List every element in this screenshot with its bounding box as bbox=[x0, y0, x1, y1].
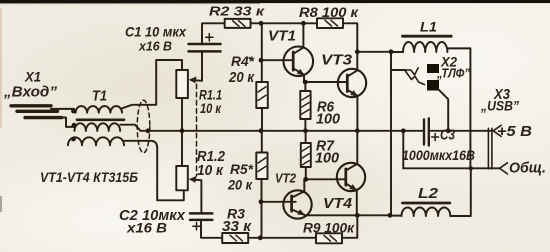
node R4/R5 mid bbox=[259, 128, 264, 133]
svg-text:х16 В: х16 В bbox=[138, 39, 172, 54]
wire +5V rail C3 to USB bbox=[430, 130, 493, 132]
transformer T1 winding 3 bbox=[68, 137, 124, 145]
X2 jack contact zigzag bbox=[406, 68, 418, 75]
X3 +5V pin arrow bbox=[493, 125, 501, 136]
wire R4 bottom to mid rail bbox=[261, 108, 263, 131]
wire bottom rail R9 up to emitter rail bbox=[342, 215, 357, 238]
svg-text:X1: X1 bbox=[24, 70, 41, 85]
wire L2 left lead bbox=[390, 215, 402, 217]
wire VT1 base bbox=[261, 59, 293, 61]
VT1 emitter arrow bbox=[297, 69, 305, 76]
wire VT2 collector up to junction bbox=[303, 179, 305, 191]
capacitor C3 bbox=[424, 119, 439, 146]
node emitter rail R9 bbox=[355, 213, 360, 218]
svg-text:+5 В: +5 В bbox=[497, 123, 532, 140]
svg-text:C1 10 мкх: C1 10 мкх bbox=[125, 24, 187, 40]
svg-text:R5*: R5* bbox=[230, 161, 254, 177]
node screen tap bbox=[146, 128, 151, 133]
node common right vertical bbox=[469, 166, 473, 170]
wire R1.1 bottom to R1.2 top bbox=[181, 98, 183, 167]
wire L1 right to right vertical bbox=[447, 48, 470, 168]
C3 minus loop bbox=[402, 131, 404, 168]
node VT3 collector tee bbox=[355, 49, 360, 54]
potentiometer R1.2 bbox=[176, 166, 188, 190]
wire mid rail to R5 bbox=[261, 131, 263, 153]
svg-text:10 к: 10 к bbox=[200, 100, 222, 116]
svg-text:33 к: 33 к bbox=[222, 219, 252, 235]
svg-text:VT2: VT2 bbox=[275, 172, 296, 186]
svg-text:100: 100 bbox=[316, 112, 340, 128]
svg-text:L1: L1 bbox=[420, 19, 437, 35]
svg-text:VT1: VT1 bbox=[268, 28, 296, 45]
wire VT3 emitter to VT4 collector bbox=[346, 131, 357, 170]
svg-text:R2 33 к: R2 33 к bbox=[209, 4, 266, 19]
node VT1 base bbox=[259, 58, 264, 63]
svg-text:Общ.: Общ. bbox=[509, 160, 546, 177]
left edge artifacts bbox=[0, 8, 2, 128]
wire bottom rail R3 to R9 bbox=[248, 237, 316, 239]
wire input top to T1 primary bbox=[51, 108, 74, 110]
resistor R9 bbox=[316, 233, 342, 243]
wire top rail R2 to R8 bbox=[251, 22, 318, 24]
node C3 plus / jack bbox=[446, 128, 451, 133]
svg-text:„Вход”: „Вход” bbox=[3, 85, 58, 101]
node VT3 emitter mid bbox=[355, 128, 360, 133]
shield screen dashed ellipse bbox=[137, 100, 150, 153]
wire C1 bottom to R1.1 wiper bbox=[192, 51, 203, 80]
svg-text:„ТЛФ”: „ТЛФ” bbox=[436, 66, 470, 81]
svg-text:„USB”: „USB” bbox=[480, 99, 519, 114]
ink speck bbox=[249, 57, 252, 60]
X3 common pin arrow bbox=[500, 163, 508, 174]
emitter rail VT2 to L2 bbox=[305, 214, 390, 216]
wire node to L1 and down to X2 and L2 bbox=[390, 52, 392, 216]
node VT2 base bbox=[259, 199, 264, 204]
resistor R4 bbox=[256, 82, 268, 108]
node R7/VT4 base bbox=[303, 177, 308, 182]
transistor VT3 bbox=[338, 69, 366, 131]
resistor R6 bbox=[300, 91, 310, 119]
wire C1 top to top rail corner bbox=[202, 23, 225, 44]
node C3 minus bbox=[401, 128, 406, 133]
connector X1 input lead 1 bbox=[11, 104, 51, 107]
node R2/R8 junction bbox=[259, 21, 264, 26]
wire VT3 collector junction to L1/X2 node bbox=[357, 51, 391, 53]
wire VT1 emitter to VT3 base and R6 bbox=[305, 81, 347, 83]
transistor VT2 bbox=[283, 190, 311, 218]
wire C2 bottom to bottom rail bbox=[201, 220, 222, 238]
top torn black edge bbox=[0, 0, 550, 3]
transistor VT1 bbox=[284, 23, 314, 82]
node bottom rail bbox=[258, 235, 263, 240]
wire input bottom jog to T1 winding 2 bbox=[61, 118, 75, 127]
svg-text:Т1: Т1 bbox=[92, 89, 107, 105]
svg-text:1000мкх16В: 1000мкх16В bbox=[402, 148, 475, 163]
X2 jack plug body bbox=[427, 64, 439, 91]
capacitor C2 bbox=[190, 213, 212, 230]
svg-text:VT4: VT4 bbox=[323, 195, 353, 212]
node pot chain mid bbox=[180, 128, 185, 133]
node R6/R7 mid bbox=[303, 128, 308, 133]
svg-text:х16 В: х16 В bbox=[126, 220, 167, 236]
resistor R7 bbox=[301, 143, 311, 167]
gang dashed line R1.1-R1.2 bbox=[196, 84, 198, 176]
node T1 dot2 bbox=[72, 123, 77, 128]
transformer T1 winding 1 bbox=[76, 106, 123, 113]
transformer T1 core bbox=[77, 118, 124, 121]
resistor R3 bbox=[222, 233, 248, 243]
node T1 dot3 bbox=[71, 137, 76, 142]
svg-text:R8 100 к: R8 100 к bbox=[299, 5, 359, 20]
transistor VT4 bbox=[337, 163, 365, 216]
svg-text:L2: L2 bbox=[418, 186, 438, 202]
wire R6 bottom to mid rail bbox=[304, 119, 306, 131]
VT2 emitter arrow bbox=[297, 209, 305, 215]
wire R5 bottom to VT2 base to bottom rail bbox=[261, 179, 263, 238]
wire VT2 base bbox=[261, 201, 296, 203]
wire R7 junction to VT4 base bbox=[306, 178, 346, 180]
VT4 emitter arrow bbox=[349, 184, 357, 191]
resistor R5 bbox=[256, 153, 267, 180]
wire R7 top to mid rail bbox=[305, 131, 307, 143]
R1.2 wiper arrow bbox=[189, 176, 197, 183]
wire X2 branch bbox=[391, 69, 406, 71]
svg-text:R4*: R4* bbox=[231, 53, 255, 69]
svg-text:С3: С3 bbox=[440, 128, 455, 144]
wire X2 plug to +5V rail bbox=[439, 90, 448, 131]
connector X3 USB bracket bbox=[488, 128, 492, 169]
inductor L2 bbox=[402, 203, 451, 216]
wire T1 winding1 right to R1.1 top bbox=[122, 60, 182, 108]
potentiometer R1.1 bbox=[176, 70, 188, 98]
wire top rail R8 to VT3 collector bbox=[343, 23, 357, 70]
transformer T1 winding 2 bbox=[75, 123, 121, 131]
node VT1 collector rail bbox=[301, 21, 306, 26]
svg-text:10 к: 10 к bbox=[197, 163, 224, 179]
wire L2 right up to common bbox=[450, 168, 471, 216]
svg-text:20 к: 20 к bbox=[228, 70, 254, 86]
node T1 dot1 bbox=[71, 109, 76, 114]
node VT1 emitter junction bbox=[303, 80, 308, 85]
R1.1 wiper arrow bbox=[189, 77, 197, 84]
mid common rail bbox=[120, 125, 423, 131]
svg-text:VT3: VT3 bbox=[321, 52, 353, 69]
resistor R8 bbox=[317, 18, 343, 28]
resistor R2 bbox=[225, 19, 251, 28]
node L2 left bbox=[388, 213, 393, 218]
connector X1 input lead 2 bbox=[17, 110, 58, 113]
capacitor C1 bbox=[189, 34, 221, 52]
bias chain vertical R2/R8 junction to VT1 base to R4 bbox=[261, 23, 263, 82]
node L1/X2 tee bbox=[389, 49, 394, 54]
svg-text:VT1-VT4 КТ315Б: VT1-VT4 КТ315Б bbox=[40, 169, 138, 185]
common rail to USB bbox=[403, 167, 499, 169]
wire R7 bottom to VT4 base junction bbox=[305, 167, 307, 179]
VT3 emitter arrow bbox=[350, 90, 358, 97]
svg-text:20 к: 20 к bbox=[227, 178, 253, 193]
svg-text:100: 100 bbox=[315, 151, 339, 167]
inductor L1 bbox=[403, 36, 452, 52]
wire R1.2 wiper to C2 top bbox=[192, 180, 202, 214]
svg-text:R9 100к: R9 100к bbox=[303, 221, 355, 236]
connector X1 input lead 3 bbox=[25, 116, 62, 119]
wire T1 winding3 right to R1.2 bottom bbox=[124, 141, 184, 201]
wire L1 left lead bbox=[391, 51, 403, 53]
X2 jack lower spring contact bbox=[405, 71, 425, 85]
